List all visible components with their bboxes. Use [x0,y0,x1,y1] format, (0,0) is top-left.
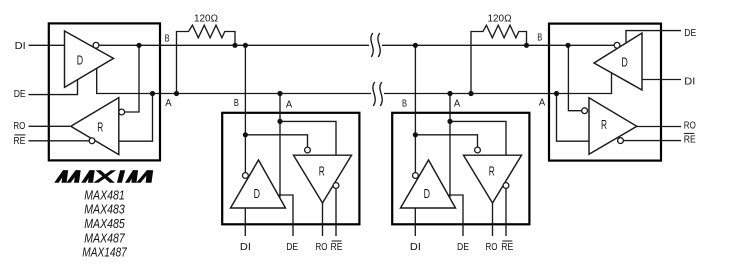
wire DE stub U1 [29,80,78,95]
svg-text:RE: RE [684,133,696,145]
overline RE U2 [684,132,695,134]
wire U4 A to receiver input [450,121,506,155]
svg-text:RE: RE [501,241,513,253]
svg-text:D: D [621,55,627,70]
overline RE U3 [332,240,342,242]
svg-text:R: R [601,117,607,132]
wire U3 A drop [279,94,281,198]
wire DI pin U3 [244,208,246,236]
svg-text:B: B [165,32,170,44]
svg-text:120Ω: 120Ω [488,12,512,24]
wire DE pin U3 [279,195,293,236]
wire RE stub U1 [29,140,90,142]
wire U3 A to receiver input [280,121,336,155]
svg-text:DI: DI [410,241,421,253]
svg-text:RO: RO [486,241,498,253]
svg-text:R: R [319,164,325,179]
junction U4 B internal [413,132,418,137]
svg-text:B: B [402,97,407,109]
wire RO stub U2 [637,126,681,128]
wire U4 B drop [414,45,416,173]
svg-text:DE: DE [457,241,469,253]
svg-text:MAX483: MAX483 [84,202,125,217]
wire DE stub U2 [626,31,681,43]
svg-text:MAX487: MAX487 [84,230,125,245]
wire RE pin U3 [335,188,337,236]
junction U3 B internal [243,132,248,137]
wire RO pin U3 [322,203,324,236]
wire U4 A drop [449,94,451,198]
svg-text:RE: RE [13,135,25,147]
driver D triangle U2 [594,33,642,90]
svg-text:MAX485: MAX485 [84,216,125,231]
svg-text:MAX481: MAX481 [84,187,125,202]
svg-text:DE: DE [684,27,696,39]
wire RO pin U4 [492,203,494,236]
junction net B U3 drop [243,43,248,48]
wire RE pin U4 [505,188,507,236]
junction U3 A internal [277,119,282,124]
junction net A U3 drop [277,91,282,96]
bubble U4 driver inverting output [413,173,419,179]
svg-text:120Ω: 120Ω [194,13,218,25]
transceiver U3 box [222,113,359,225]
overline RE U4 [502,240,512,242]
junction net B resistor R2 [524,43,529,48]
resistor R2 120ohm [471,25,527,93]
svg-text:RE: RE [331,241,343,253]
junction net B at U2 [565,43,570,48]
junction net A resistor R2 [468,91,473,96]
svg-text:DI: DI [240,241,251,253]
MAXIM logo [54,170,153,183]
wire U3 B to receiver input [245,135,307,147]
svg-text:DI: DI [15,40,26,52]
svg-text:R: R [97,119,103,134]
junction net A U4 drop [447,91,452,96]
bubble U2 receiver inverting input [582,108,588,114]
wire net A right segment [384,73,612,94]
svg-text:A: A [454,97,460,109]
driver D triangle U1 [65,31,114,87]
receiver R triangle U3 [294,155,352,203]
junction net A at U1 [150,91,155,96]
junction net A resistor R1 [174,91,179,96]
wire RO stub U1 [29,125,71,127]
wire RE stub U2 [623,140,681,142]
svg-text:A: A [286,98,292,110]
bubble U2 driver inverting output [614,42,620,48]
svg-text:DE: DE [286,241,298,253]
receiver R triangle U4 [464,155,522,203]
junction net B U4 drop [413,43,418,48]
svg-text:A: A [539,97,545,109]
wire U1 B to receiver input [125,45,139,112]
wire DI pin U4 [414,208,416,236]
wire net B left segment [99,44,369,46]
svg-text:D: D [77,53,83,68]
svg-text:MAX1487: MAX1487 [82,245,127,260]
wire U3 B drop [244,45,246,173]
svg-text:RO: RO [316,241,328,253]
bubble U2 receiver enable RE [618,138,624,144]
cable break squiggle net B [371,33,380,57]
bubble U1 driver inverting output [93,42,99,48]
resistor R1 120ohm [177,25,236,93]
svg-text:B: B [234,97,239,109]
bubble U4 receiver enable RE [503,183,509,189]
bubble U3 receiver inverting input [305,147,311,153]
transceiver U2 box [549,24,661,161]
svg-text:RO: RO [684,119,696,131]
svg-text:DE: DE [14,88,26,100]
wire U4 B to receiver input [415,135,477,147]
receiver R triangle U2 [589,98,637,154]
svg-text:D: D [424,186,430,201]
wire DI stub U1 [29,44,65,46]
junction net B resistor R1 [232,43,237,48]
transceiver U4 box [392,113,529,225]
junction U4 A internal [447,119,452,124]
svg-text:A: A [165,97,171,109]
bubble U3 receiver enable RE [333,183,339,189]
driver D triangle U4 [401,160,456,208]
wire DI stub U2 [642,79,681,81]
svg-text:RO: RO [13,120,25,132]
driver D triangle U3 [231,160,286,208]
wire net A left segment [97,68,371,93]
cable break squiggle net A [373,82,382,106]
wire DE pin U4 [449,195,463,236]
svg-text:B: B [537,32,542,44]
wire U2 A to receiver input [557,94,590,142]
junction net A at U2 [554,91,559,96]
bubble U1 receiver inverting input [119,109,125,115]
receiver R triangle U1 [71,98,119,155]
transceiver U1 box [49,23,160,160]
bubble U3 driver inverting output [243,173,249,179]
overline RE U1 [15,134,26,136]
svg-text:D: D [254,186,260,201]
wire U2 B to receiver input [568,45,581,110]
wire net B right segment [382,44,614,46]
bubble U1 receiver enable RE [89,138,95,144]
bubble U4 receiver inverting input [475,147,481,153]
svg-text:DI: DI [684,76,695,88]
junction net B at U1 [136,43,141,48]
wire U1 A to receiver input [119,94,153,142]
svg-text:R: R [489,164,495,179]
